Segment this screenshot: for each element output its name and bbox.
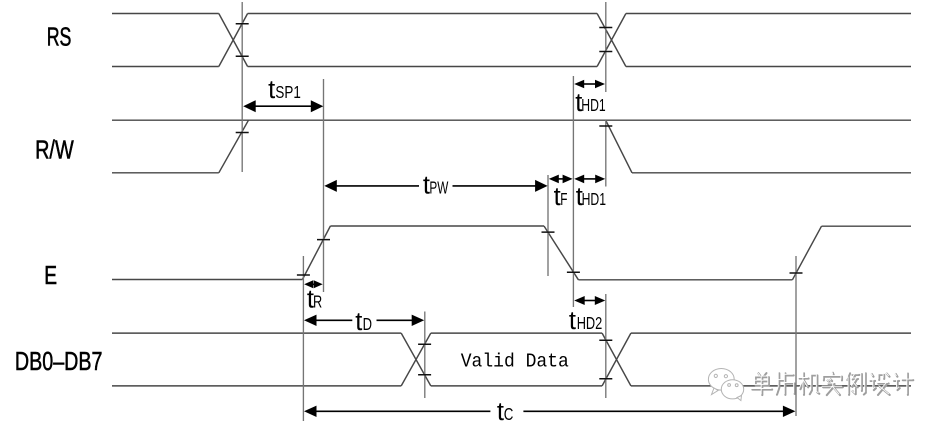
watermark text <box>752 373 913 395</box>
wire E low middle <box>578 279 792 281</box>
tick marks <box>236 24 249 133</box>
reference line V2 <box>323 79 325 292</box>
wire RS top level <box>112 13 911 15</box>
wire RS bottom level <box>112 66 911 68</box>
node DB crossover 2 <box>602 333 631 386</box>
arrow tR <box>304 280 323 288</box>
reference line V6 <box>605 2 607 398</box>
svg-text:R/W: R/W <box>35 136 74 164</box>
node RS crossover 1 <box>219 14 248 67</box>
wire R/W rising edge <box>219 120 249 173</box>
arrow tHD1 second <box>574 175 605 184</box>
svg-text:t: t <box>268 76 275 104</box>
reference line V1 <box>241 2 243 172</box>
arrow tF <box>549 175 573 184</box>
watermark logo bubbles <box>708 369 743 401</box>
wire E falling edge <box>544 226 578 280</box>
wire R/W bottom right <box>632 172 911 174</box>
svg-text:SP1: SP1 <box>275 82 300 102</box>
reference line V8 <box>424 312 426 399</box>
wire DB bottom level <box>112 385 911 387</box>
wire R/W falling edge <box>606 120 632 173</box>
node RS crossover 2 <box>597 14 626 67</box>
wire E rising edge 2 <box>792 226 821 280</box>
arrow tPW <box>324 180 547 192</box>
svg-text:HD1: HD1 <box>582 189 606 209</box>
wire R/W bottom left <box>112 172 219 174</box>
arrow tSP1 <box>243 100 323 112</box>
svg-text:Valid Data: Valid Data <box>461 351 569 373</box>
reference line V5 <box>572 76 574 307</box>
wire E high level <box>330 225 544 227</box>
wire R/W top level <box>112 119 911 121</box>
svg-text:F: F <box>560 189 567 209</box>
node DB crossover 1 <box>401 333 431 386</box>
arrow tHD1 top <box>574 80 605 89</box>
reference line V3 <box>302 256 304 421</box>
arrow tHD2 <box>574 296 605 305</box>
wire E low left <box>112 279 302 281</box>
arrow tC <box>304 406 795 417</box>
svg-text:t: t <box>355 308 362 336</box>
svg-text:C: C <box>504 404 514 424</box>
svg-text:HD2: HD2 <box>577 313 603 333</box>
reference line V7 <box>795 256 797 416</box>
svg-text:R: R <box>313 291 322 311</box>
svg-text:RS: RS <box>47 24 72 52</box>
arrow tD <box>304 315 424 326</box>
svg-text:E: E <box>44 262 57 290</box>
svg-text:D: D <box>363 314 372 334</box>
reference line V4 <box>547 175 549 276</box>
svg-text:HD1: HD1 <box>581 95 605 115</box>
svg-text:t: t <box>569 307 576 335</box>
wire DB top level <box>112 332 911 334</box>
wire E high right <box>822 225 912 227</box>
svg-text:DB0–DB7: DB0–DB7 <box>15 348 103 376</box>
wire E rising edge 1 <box>302 226 330 280</box>
svg-text:PW: PW <box>429 177 448 197</box>
